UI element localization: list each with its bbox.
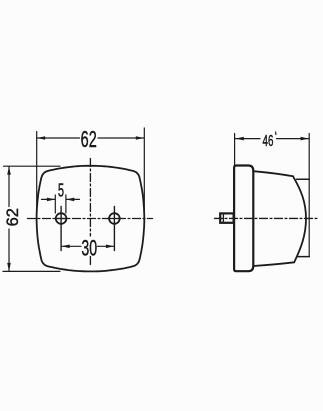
svg-text:30: 30 — [81, 235, 97, 260]
dim 46: left arrowhead — [236, 137, 244, 141]
horizontal centerline (front view) — [28, 218, 153, 220]
dim 62 top: left arrowhead — [37, 136, 45, 140]
side view: connector stub divider — [222, 213, 224, 222]
side view: housing cone + lens profile — [253, 171, 294, 266]
vertical centerline (front view) — [89, 159, 91, 237]
svg-text:62: 62 — [4, 208, 22, 226]
label 46 (depth) — [263, 132, 274, 150]
dim 62 left: extension line top — [4, 165, 61, 167]
side view: lens rim right edge + dim 46 right extension — [308, 134, 310, 257]
dim 62 left: bottom arrowhead — [7, 263, 11, 271]
dim 30: left arrowhead — [61, 245, 69, 249]
mounting hole left — [56, 213, 67, 224]
mounting hole right — [109, 213, 120, 224]
side view: connector stub — [220, 213, 233, 222]
dim 5: extension line left — [54, 195, 56, 213]
lamp lens outline (front view squircle) — [37, 166, 145, 272]
side view: lens rim bottom edge — [297, 256, 309, 258]
dim 62 left: dimension line — [8, 166, 10, 271]
dim 62 top: dimension line — [37, 137, 145, 139]
label 30 (hole spacing) — [81, 235, 97, 260]
label 5 (hole diameter) — [58, 181, 64, 202]
dim 62 top: extension line left — [36, 132, 38, 219]
dim 5: left arrow (outside, pointing right) — [42, 198, 56, 200]
dim 5: extension line right — [65, 195, 67, 213]
dim 5: right arrow (outside, pointing left) — [66, 198, 79, 200]
dim 62 top: right arrowhead — [136, 136, 144, 140]
hole right horizontal crosshair — [108, 218, 122, 220]
label 62 (left height, rotated) — [4, 208, 22, 226]
dim 62 left: extension line bottom — [3, 270, 60, 272]
dim 30: right arrowhead — [106, 245, 114, 249]
dim 46: dimension line — [235, 138, 309, 140]
hole left vertical crosshair / extension to 30-dim — [60, 207, 62, 251]
dim 46: extension line left — [234, 134, 236, 166]
dim 46: stray prime tick — [275, 132, 277, 135]
side view: mounting plate — [234, 166, 253, 272]
dim 62 left: top arrowhead — [7, 166, 11, 174]
side view: lens rim top edge — [297, 178, 310, 180]
svg-text:5: 5 — [58, 181, 64, 202]
label 62 (top width) — [81, 128, 97, 153]
side view horizontal centerline — [215, 217, 319, 219]
dim 62 top: extension line right — [143, 128, 145, 218]
svg-text:46: 46 — [263, 132, 274, 150]
dim 46: right arrowhead — [301, 137, 309, 141]
side view: lens dome curve — [293, 176, 306, 262]
dim 30: dimension line — [61, 245, 114, 247]
hole left horizontal crosshair — [55, 218, 68, 220]
svg-text:62: 62 — [81, 128, 97, 153]
hole right vertical crosshair / extension to 30-dim — [113, 207, 115, 251]
